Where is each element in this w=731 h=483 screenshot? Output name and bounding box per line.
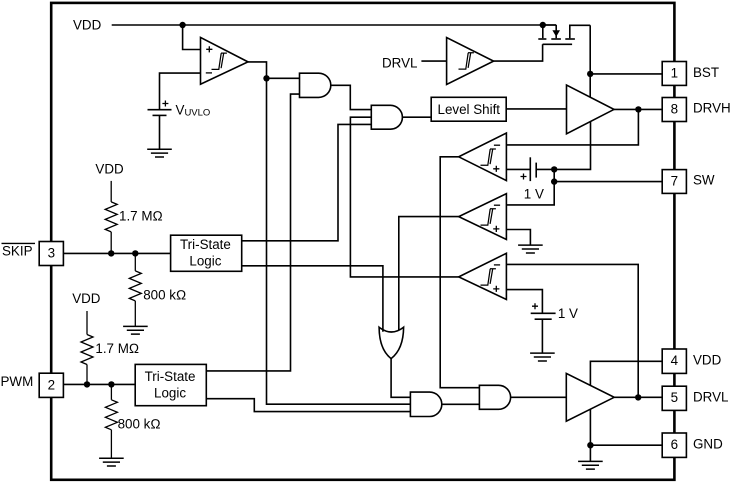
- svg-text:800 kΩ: 800 kΩ: [143, 287, 186, 302]
- node GND junction: [587, 442, 593, 448]
- resistor R4 800 kohm: [105, 400, 117, 430]
- wire VDD to R3: [86, 311, 88, 335]
- node DRVL junction: [635, 394, 641, 400]
- wire Q1 to BST node: [589, 25, 591, 97]
- battery B1 1V (SW offset): [506, 157, 536, 181]
- ground (battery B2): [530, 353, 555, 361]
- wire AND2 middle input from comparator C output: [350, 117, 458, 277]
- svg-text:1: 1: [671, 65, 678, 80]
- comparator A (DRVH sense): [459, 133, 507, 181]
- pin 7 SW: [662, 170, 715, 194]
- svg-text:1 V: 1 V: [558, 306, 578, 321]
- svg-text:6: 6: [671, 437, 678, 452]
- wire BST node to pin 1: [590, 73, 662, 75]
- svg-text:1.7 MΩ: 1.7 MΩ: [95, 341, 139, 356]
- wire GND node to pin 6: [590, 444, 662, 446]
- pin 4 VDD: [662, 349, 721, 373]
- wire AND2 bottom input from Tri-State SKIP: [242, 124, 372, 240]
- wire U2 low rail to ground/GND pin: [589, 409, 591, 461]
- ground (R4): [99, 458, 124, 466]
- pin 1 BST: [662, 62, 719, 86]
- pin 3 SKIP node wire: [63, 252, 170, 254]
- node SKIP junction 2: [132, 250, 138, 256]
- wire VDD to R1: [110, 181, 112, 202]
- node SW junction upper: [551, 166, 557, 172]
- block Tri-State Logic (SKIP): [171, 235, 242, 271]
- wire UVLO output to vertical bus: [248, 62, 410, 404]
- wire comparator B output to OR gate: [399, 217, 459, 332]
- AND gate AND3: [410, 392, 441, 416]
- resistor R3 1.7 Mohm: [81, 335, 93, 365]
- wire U3 output to Q1 gate: [494, 44, 543, 61]
- AND gate AND4: [479, 385, 510, 409]
- wire pin 4 VDD to driver U2 top rail: [590, 361, 662, 385]
- ground (R2): [123, 326, 148, 334]
- svg-text:1 V: 1 V: [524, 187, 544, 202]
- svg-text:SKIP: SKIP: [2, 244, 33, 259]
- wire DRVH to comparator A - input: [506, 109, 638, 144]
- resistor R1 1.7 Mohm: [105, 202, 117, 232]
- wire R4 to ground: [110, 430, 112, 458]
- pin 6 GND: [662, 433, 723, 457]
- buffer U3 schmitt (DRVL to bootstrap gate): [447, 38, 494, 85]
- pin 5 DRVL: [662, 386, 728, 410]
- svg-text:3: 3: [48, 245, 55, 260]
- node UVLO/AND1 junction: [263, 75, 269, 81]
- AND gate AND1: [300, 73, 331, 97]
- resistor R2 800 kohm: [129, 271, 141, 301]
- wire AND2 output to Level Shift: [402, 116, 431, 118]
- wire U2 output to pin 5 DRVL: [614, 396, 662, 398]
- wire AND4 output to driver U2: [511, 396, 567, 398]
- node SKIP junction 1: [108, 250, 114, 256]
- wire SW node to pin 7: [554, 181, 662, 183]
- wire U1 low rail to SW node: [537, 122, 591, 170]
- node PWM junction 1: [84, 381, 90, 387]
- svg-text:800 kΩ: 800 kΩ: [118, 416, 161, 431]
- comparator B (SW sense): [459, 194, 507, 240]
- wire OR output to AND3: [391, 359, 410, 398]
- wire AND1 bottom input from Tri-State PWM: [206, 94, 299, 371]
- svg-text:DRVH: DRVH: [693, 101, 731, 116]
- svg-text:2: 2: [48, 377, 55, 392]
- wire comparator C - input to DRVL node: [506, 264, 638, 397]
- svg-text:Logic: Logic: [154, 385, 186, 400]
- svg-text:DRVL: DRVL: [382, 55, 417, 70]
- wire Tri-State PWM bottom output to AND3: [206, 399, 410, 412]
- svg-text:SW: SW: [693, 173, 715, 188]
- svg-text:VDD: VDD: [693, 353, 722, 368]
- wire Level Shift output to driver U1: [506, 108, 566, 110]
- wire AND3 output to AND4: [442, 403, 480, 405]
- node PWM junction 2: [108, 381, 114, 387]
- wire SW node to comparator B - input: [506, 169, 554, 205]
- pin 3 SKIP-bar: [2, 242, 64, 266]
- wire OR left input from Tri-State SKIP: [242, 266, 383, 332]
- OR gate O1 (pointing down): [379, 327, 404, 358]
- AND gate AND2: [371, 105, 402, 129]
- pin 8 DRVH: [662, 98, 731, 122]
- op-amp U2 low-side driver: [566, 373, 614, 421]
- svg-text:8: 8: [671, 101, 678, 116]
- wire DRVL label to buffer: [421, 60, 446, 62]
- wire R3 to PWM node: [86, 365, 88, 385]
- svg-text:Level Shift: Level Shift: [438, 102, 501, 117]
- svg-text:Tri-State: Tri-State: [180, 237, 231, 252]
- svg-text:PWM: PWM: [1, 374, 34, 389]
- svg-text:1.7 MΩ: 1.7 MΩ: [119, 209, 163, 224]
- svg-text:4: 4: [671, 353, 679, 368]
- svg-text:7: 7: [671, 173, 678, 188]
- block Level Shift: [431, 97, 506, 121]
- ground (driver U2): [578, 461, 603, 469]
- node BST junction: [587, 71, 593, 77]
- wire UVLO - input: [160, 73, 201, 110]
- op-amp U1 high-side driver: [567, 85, 615, 134]
- svg-text:5: 5: [671, 390, 678, 405]
- wire comparator B + input to ground: [506, 230, 530, 245]
- svg-text:GND: GND: [693, 437, 723, 452]
- wire UVLO to AND1 top input: [267, 77, 300, 79]
- comparator C (DRVL sense): [459, 253, 507, 299]
- wire U1 output to pin 8 DRVH: [614, 108, 662, 110]
- wire R2 to ground: [134, 301, 136, 326]
- svg-text:VDD: VDD: [72, 291, 101, 306]
- wire PWM node to R4: [110, 384, 112, 399]
- svg-text:Logic: Logic: [189, 253, 221, 268]
- svg-text:BST: BST: [693, 65, 719, 80]
- wire comparator C + input to battery B2: [506, 290, 542, 313]
- op-amp UVLO comparator: [201, 37, 249, 84]
- svg-text:Tri-State: Tri-State: [145, 369, 196, 384]
- battery B2 1V (DRVL threshold): [531, 303, 556, 353]
- node VDD/Q1 junction: [540, 22, 546, 28]
- ground (comparator B): [518, 245, 543, 253]
- wire SKIP node to R2: [134, 253, 136, 271]
- block Tri-State Logic (PWM): [135, 364, 206, 405]
- wire R1 to SKIP node: [110, 232, 112, 254]
- wire AND1 output to AND2: [331, 85, 372, 109]
- svg-text:VDD: VDD: [73, 17, 102, 32]
- ground (under V_UVLO): [147, 149, 172, 157]
- svg-text:VUVLO: VUVLO: [176, 103, 211, 119]
- transistor Q1 bootstrap switch: [538, 25, 590, 44]
- pin 2 PWM node wire: [63, 383, 135, 385]
- svg-text:VDD: VDD: [95, 161, 124, 176]
- node DRVH junction: [635, 106, 641, 112]
- pin 2 PWM: [1, 373, 64, 397]
- node SW junction lower: [551, 178, 557, 184]
- wire comparator A output to AND4: [440, 157, 479, 388]
- svg-text:DRVL: DRVL: [693, 390, 728, 405]
- wire UVLO + input: [183, 25, 201, 50]
- wire VDD rail: [112, 24, 557, 26]
- battery V_UVLO: [148, 101, 172, 149]
- node VDD tap junction: [179, 22, 185, 28]
